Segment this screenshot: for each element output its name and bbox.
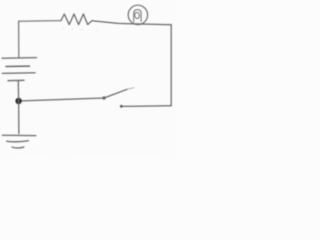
wire bottom-left (19, 98, 104, 101)
lamp (128, 5, 147, 24)
wire battery to node (17, 81, 19, 101)
ground (2, 135, 36, 148)
wire resistor to top-right corner (92, 21, 171, 25)
wire bottom-right (122, 105, 172, 108)
wire node to ground (18, 101, 20, 134)
switch contact dot (120, 105, 123, 108)
resistor (61, 14, 92, 25)
switch lever (104, 89, 127, 98)
scan speckles (62, 28, 97, 31)
switch pivot dot (102, 96, 105, 99)
node junction dot (15, 98, 21, 104)
wire right vertical (170, 25, 172, 106)
switch lever tip (127, 88, 134, 90)
wire left vertical top (18, 21, 20, 57)
wire top-left horizontal (19, 20, 61, 23)
battery (2, 58, 37, 81)
paper noise (0, 0, 176, 157)
